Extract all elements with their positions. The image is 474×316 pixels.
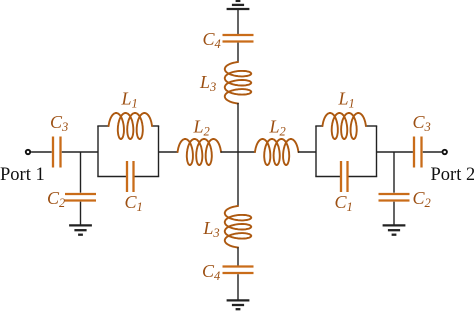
tank box top wire left seg [97, 125, 109, 127]
tank box right side [158, 126, 160, 177]
inductor L3 (bottom) [225, 206, 251, 248]
wire center node to L3 bottom [237, 152, 239, 207]
wire L3 top to center node [237, 103, 239, 152]
wire box to node B [377, 151, 413, 153]
tank box bottom wire right seg [135, 176, 160, 178]
capacitor C1 (right) plates [340, 161, 342, 192]
wire C3 right to port 2 [423, 151, 442, 153]
capacitor C2 (left) plates [65, 193, 96, 195]
tank box bottom wire left seg [97, 176, 126, 178]
inductor L3 (top) [225, 62, 251, 104]
wire C4 to L3 top [237, 43, 239, 63]
wire L3 bottom to C4 bottom [237, 247, 239, 265]
node A shunt branch wire [80, 152, 82, 193]
tank box left side [97, 126, 99, 177]
port 1 terminal [26, 150, 30, 154]
ground (left) [69, 224, 92, 226]
inductor L2 (right) [255, 139, 298, 165]
node B shunt branch wire [393, 152, 395, 193]
svg-text:Port 2: Port 2 [431, 165, 474, 185]
tank box right: top wire left seg [315, 125, 323, 127]
tank box right: bottom wire right seg [349, 176, 378, 178]
wire C4 bottom to ground [237, 274, 239, 300]
capacitor C1 (left) plates [126, 161, 128, 192]
tank box top wire right seg [152, 125, 160, 127]
wire C2 right to ground [393, 202, 395, 226]
wire port1 to C3 [31, 151, 52, 153]
tank box right: bottom wire left seg [315, 176, 340, 178]
wire center to L2 right [238, 151, 256, 153]
svg-text:Port 1: Port 1 [0, 165, 45, 185]
capacitor C3 (right) plates [413, 137, 415, 168]
wire L2 right to tank box right [298, 151, 316, 153]
inductor L1 (left) [109, 113, 152, 139]
tank box right: right side [376, 126, 378, 177]
wire L2 left to center [221, 151, 238, 153]
capacitor C2 (right) plates [379, 193, 410, 195]
wire C2 to ground [80, 202, 82, 226]
inductor L1 (right) [323, 113, 366, 139]
capacitor C4 (top) plates [223, 34, 254, 36]
wire C3 to tank box left [62, 151, 98, 153]
inductor L2 (left) [178, 139, 221, 165]
port 2 terminal [443, 150, 447, 154]
wire top ground to C4 [237, 9, 239, 34]
ground (right) [383, 224, 406, 226]
capacitor C4 (bottom) plates [223, 265, 254, 267]
wire box to L2 left [159, 151, 179, 153]
tank box right: top wire right seg [365, 125, 377, 127]
ground (top, inverted) [227, 8, 250, 10]
ground (bottom) [227, 299, 250, 301]
tank box right: left side [315, 126, 317, 177]
capacitor C3 (left) plates [52, 137, 54, 168]
